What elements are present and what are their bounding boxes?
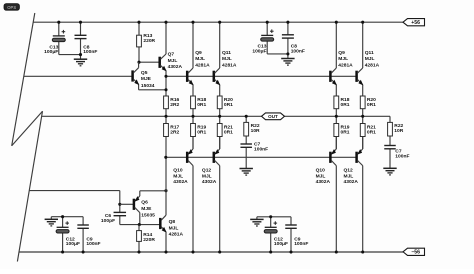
resistor R20 0R1 left <box>217 96 233 116</box>
ground top-right cluster <box>281 54 294 65</box>
node OUT rail junction x=219.7 <box>218 115 221 118</box>
node C8 ground junction left <box>79 53 82 56</box>
node R13 / Q5 collector junction <box>137 61 140 64</box>
ground top-left cluster <box>74 55 87 66</box>
svg-text:MJL: MJL <box>365 56 375 62</box>
svg-text:MJL: MJL <box>222 56 232 62</box>
wire upper driver base wire from page break to Q5 <box>24 75 133 77</box>
wire lower output bases node to Q10/Q12 bases <box>166 156 357 158</box>
svg-text:100nF: 100nF <box>291 49 305 55</box>
node top rail junction x=193.0 <box>191 21 194 24</box>
svg-text:MJL: MJL <box>168 58 178 64</box>
svg-text:4281A: 4281A <box>222 62 237 68</box>
svg-text:0R1: 0R1 <box>197 130 206 136</box>
ground bottom-right cluster <box>250 217 263 226</box>
svg-text:100pF: 100pF <box>101 218 115 224</box>
node bottom rail junction x=362.7 <box>361 250 364 253</box>
svg-text:100nF: 100nF <box>395 154 409 160</box>
transistor Q12 MJL4302A left <box>202 137 220 253</box>
node C6 / Q6 base branch <box>118 203 121 206</box>
svg-text:15034: 15034 <box>141 83 155 89</box>
svg-text:0R1: 0R1 <box>367 130 376 136</box>
wire C13-C8 bottom join left <box>59 54 81 56</box>
wire bottom-left cluster join <box>51 216 83 218</box>
transistor Q9 MJL4281A left <box>187 22 210 96</box>
svg-text:Q8: Q8 <box>169 219 176 225</box>
svg-text:MJE: MJE <box>141 206 152 212</box>
transistor Q10 MJL4302A right <box>316 137 337 253</box>
resistor R14 220R <box>137 225 156 252</box>
svg-text:Q9: Q9 <box>338 50 345 56</box>
svg-text:4302A: 4302A <box>202 179 217 185</box>
svg-text:10R: 10R <box>251 128 260 134</box>
node bottom rail junction x=336.3 <box>335 250 338 253</box>
svg-text:MJL: MJL <box>338 56 348 62</box>
node top rail junction x=362.7 <box>361 21 364 24</box>
wire page-break diagonal lower-left <box>17 111 42 261</box>
ground zobel right <box>383 168 396 175</box>
svg-text:R21: R21 <box>367 124 376 130</box>
resistor R18 0R1 right <box>334 96 350 116</box>
resistor R22 10R right <box>388 116 404 145</box>
wire page-break zigzag jog <box>12 111 43 146</box>
svg-text:Q6: Q6 <box>141 199 148 205</box>
node +56 supply tag <box>403 19 425 27</box>
node C8 ground junction right <box>286 52 289 55</box>
svg-text:Q9: Q9 <box>195 50 202 56</box>
wire R17 to lower base to Q8 vertical <box>165 157 167 215</box>
wire -56 bottom supply rail <box>19 251 403 253</box>
svg-text:4302A: 4302A <box>344 179 359 185</box>
svg-text:0R1: 0R1 <box>224 130 233 136</box>
svg-text:−56: −56 <box>411 250 420 256</box>
node OUT rail junction x=336.3 <box>335 115 338 118</box>
svg-text:R18: R18 <box>197 97 206 103</box>
wire R13 node to Q7 base <box>139 61 160 63</box>
node bottom rail junction x=83.1 <box>82 250 85 253</box>
svg-text:4281A: 4281A <box>169 231 184 237</box>
svg-text:4281A: 4281A <box>195 62 210 68</box>
svg-text:100μF: 100μF <box>44 49 58 55</box>
node OPS sheet label <box>4 4 19 11</box>
svg-text:4281A: 4281A <box>365 62 380 68</box>
svg-text:0R1: 0R1 <box>224 102 233 108</box>
capacitor C12 100uF right <box>264 217 288 252</box>
wire C13-C8 bottom join right <box>267 53 288 55</box>
svg-text:100μF: 100μF <box>274 241 288 247</box>
capacitor C7 100nF left <box>240 142 268 169</box>
node bottom rail junction x=270.7 <box>269 250 272 253</box>
resistor R21 0R1 right <box>360 116 376 149</box>
transistor Q6 MJE15035 <box>134 191 155 225</box>
transistor Q9 MJL4281A right <box>330 22 353 96</box>
wire Q5 emitter run <box>139 89 166 91</box>
svg-text:+56: +56 <box>411 20 420 26</box>
node top rail junction x=267.2 <box>266 21 269 24</box>
svg-text:MJL: MJL <box>173 173 183 179</box>
transistor Q5 MJE15034 <box>133 62 155 90</box>
svg-text:100μF: 100μF <box>66 241 80 247</box>
node OUT tag <box>262 113 285 120</box>
svg-text:10R: 10R <box>394 128 403 134</box>
svg-text:MJL: MJL <box>169 225 179 231</box>
capacitor C6 100pF <box>101 212 126 224</box>
wire page-break diagonal upper-left <box>12 13 35 146</box>
resistor R19 0R1 right <box>334 116 350 149</box>
svg-text:Q12: Q12 <box>344 167 354 173</box>
wire Q6 collector run <box>140 190 166 192</box>
wire Q8 base wire <box>120 224 161 226</box>
node top rail junction x=166 <box>164 21 167 24</box>
svg-text:Q11: Q11 <box>365 50 374 56</box>
capacitor C7 100nF right <box>384 146 409 169</box>
capacitor C9 100nF right <box>285 217 308 252</box>
svg-text:15035: 15035 <box>141 212 155 218</box>
node top rail junction x=58.8 <box>57 21 60 24</box>
transistor Q8 MJL4281A <box>160 215 183 252</box>
resistor R18 0R1 left <box>191 96 207 116</box>
svg-text:0R1: 0R1 <box>341 102 350 108</box>
transistor Q11 MJL4281A left <box>214 22 237 96</box>
node OUT rail junction x=362.7 <box>361 115 364 118</box>
node C12 top junction right <box>269 215 272 218</box>
ground bottom-left cluster <box>45 217 58 226</box>
svg-text:220R: 220R <box>143 237 155 243</box>
svg-text:OPS: OPS <box>7 5 16 10</box>
node Q6 emitter / R14 junction <box>138 223 141 226</box>
wire C6 column vertical <box>119 191 121 213</box>
svg-text:MJL: MJL <box>316 173 326 179</box>
svg-text:R22: R22 <box>394 123 403 129</box>
node OUT rail junction x=166 <box>164 115 167 118</box>
svg-text:MJL: MJL <box>202 173 212 179</box>
transistor Q10 MJL4302A left <box>173 137 193 253</box>
node R22 left junction on OUT rail <box>245 115 248 118</box>
svg-text:R18: R18 <box>341 97 350 103</box>
svg-text:R22: R22 <box>251 123 260 129</box>
svg-text:MJL: MJL <box>195 56 205 62</box>
wire VAS drive from page break <box>29 190 120 192</box>
svg-text:0R1: 0R1 <box>197 102 206 108</box>
svg-text:4302A: 4302A <box>168 64 183 70</box>
capacitor C13 100uF left <box>44 22 65 55</box>
svg-text:R19: R19 <box>341 124 350 130</box>
capacitor C8 100nF left <box>75 22 98 55</box>
svg-text:0R1: 0R1 <box>367 102 376 108</box>
svg-text:R14: R14 <box>143 232 152 238</box>
wire OUT rail corner to R22 right <box>389 115 391 117</box>
svg-text:2R2: 2R2 <box>170 102 179 108</box>
node -56 supply tag <box>403 248 425 256</box>
resistor R13 220R <box>137 22 156 62</box>
svg-text:100nF: 100nF <box>83 49 97 55</box>
node top rail junction x=139 <box>137 21 140 24</box>
transistor Q11 MJL4281A right <box>357 22 380 96</box>
node Q7 emitter / output base wire junction <box>164 75 167 78</box>
svg-text:100μF: 100μF <box>252 49 266 55</box>
svg-text:Q7: Q7 <box>168 52 175 58</box>
resistor R21 0R1 left <box>217 116 233 149</box>
transistor Q12 MJL4302A right <box>344 137 363 253</box>
node lower base wire junction <box>164 156 167 159</box>
wire +56 top supply rail <box>33 21 403 23</box>
node bottom rail junction x=193.0 <box>191 250 194 253</box>
svg-text:R20: R20 <box>367 97 376 103</box>
wire Q6 base wire <box>120 203 133 205</box>
svg-text:Q12: Q12 <box>202 167 212 173</box>
svg-text:R19: R19 <box>197 124 206 130</box>
svg-text:OUT: OUT <box>268 114 278 119</box>
svg-text:Q10: Q10 <box>173 167 183 173</box>
transistor Q7 MJL4302A <box>160 22 183 96</box>
svg-text:4302A: 4302A <box>173 179 188 185</box>
svg-text:R16: R16 <box>170 97 179 103</box>
svg-text:R20: R20 <box>224 97 233 103</box>
ground zobel left <box>240 168 253 175</box>
node C12 top junction left <box>61 215 64 218</box>
svg-text:Q10: Q10 <box>316 167 326 173</box>
node OUT rail junction x=193.0 <box>191 115 194 118</box>
node top rail junction x=80.5 <box>79 21 82 24</box>
resistor R20 0R1 right <box>360 96 376 116</box>
svg-text:2R2: 2R2 <box>170 130 179 136</box>
svg-text:MJL: MJL <box>344 173 354 179</box>
svg-text:100nF: 100nF <box>254 147 268 153</box>
capacitor C8 100nF right <box>282 22 305 54</box>
svg-text:100nF: 100nF <box>86 241 100 247</box>
resistor R19 0R1 left <box>191 116 207 149</box>
svg-text:Q5: Q5 <box>141 70 148 76</box>
svg-text:R17: R17 <box>170 124 179 130</box>
svg-text:Q11: Q11 <box>222 50 231 56</box>
wire bottom-right cluster join <box>257 216 291 218</box>
node bottom rail junction x=166 <box>164 250 167 253</box>
svg-text:4302A: 4302A <box>316 179 331 185</box>
node bottom rail junction x=62.6 <box>61 250 64 253</box>
svg-text:100nF: 100nF <box>294 241 308 247</box>
capacitor C9 100nF left <box>77 217 100 252</box>
svg-text:R13: R13 <box>143 33 152 39</box>
resistor R17 2R2 <box>164 116 180 157</box>
svg-text:MJE: MJE <box>141 76 152 82</box>
node bottom rail junction x=139 <box>137 250 140 253</box>
wire upper output bases Q7 emitter to Q9/Q11 bases <box>166 75 357 77</box>
svg-text:R21: R21 <box>224 124 233 130</box>
node top rail junction x=287.9 <box>286 21 289 24</box>
node bottom rail junction x=219.7 <box>218 250 221 253</box>
node Q6 collector / Q8 collector junction <box>164 189 167 192</box>
node top rail junction x=219.7 <box>218 21 221 24</box>
resistor R22 10R left <box>244 116 260 144</box>
node top rail junction x=336.3 <box>335 21 338 24</box>
resistor R16 2R2 <box>164 96 180 116</box>
capacitor C13 100uF right <box>252 22 273 54</box>
svg-text:4281A: 4281A <box>338 62 353 68</box>
node Q5 emitter / R16 junction <box>164 88 167 91</box>
wire OUT output rail <box>42 115 390 117</box>
capacitor C12 100uF left <box>56 217 80 252</box>
node bottom rail junction x=291 <box>289 250 292 253</box>
svg-text:220R: 220R <box>143 38 155 44</box>
svg-text:0R1: 0R1 <box>341 130 350 136</box>
